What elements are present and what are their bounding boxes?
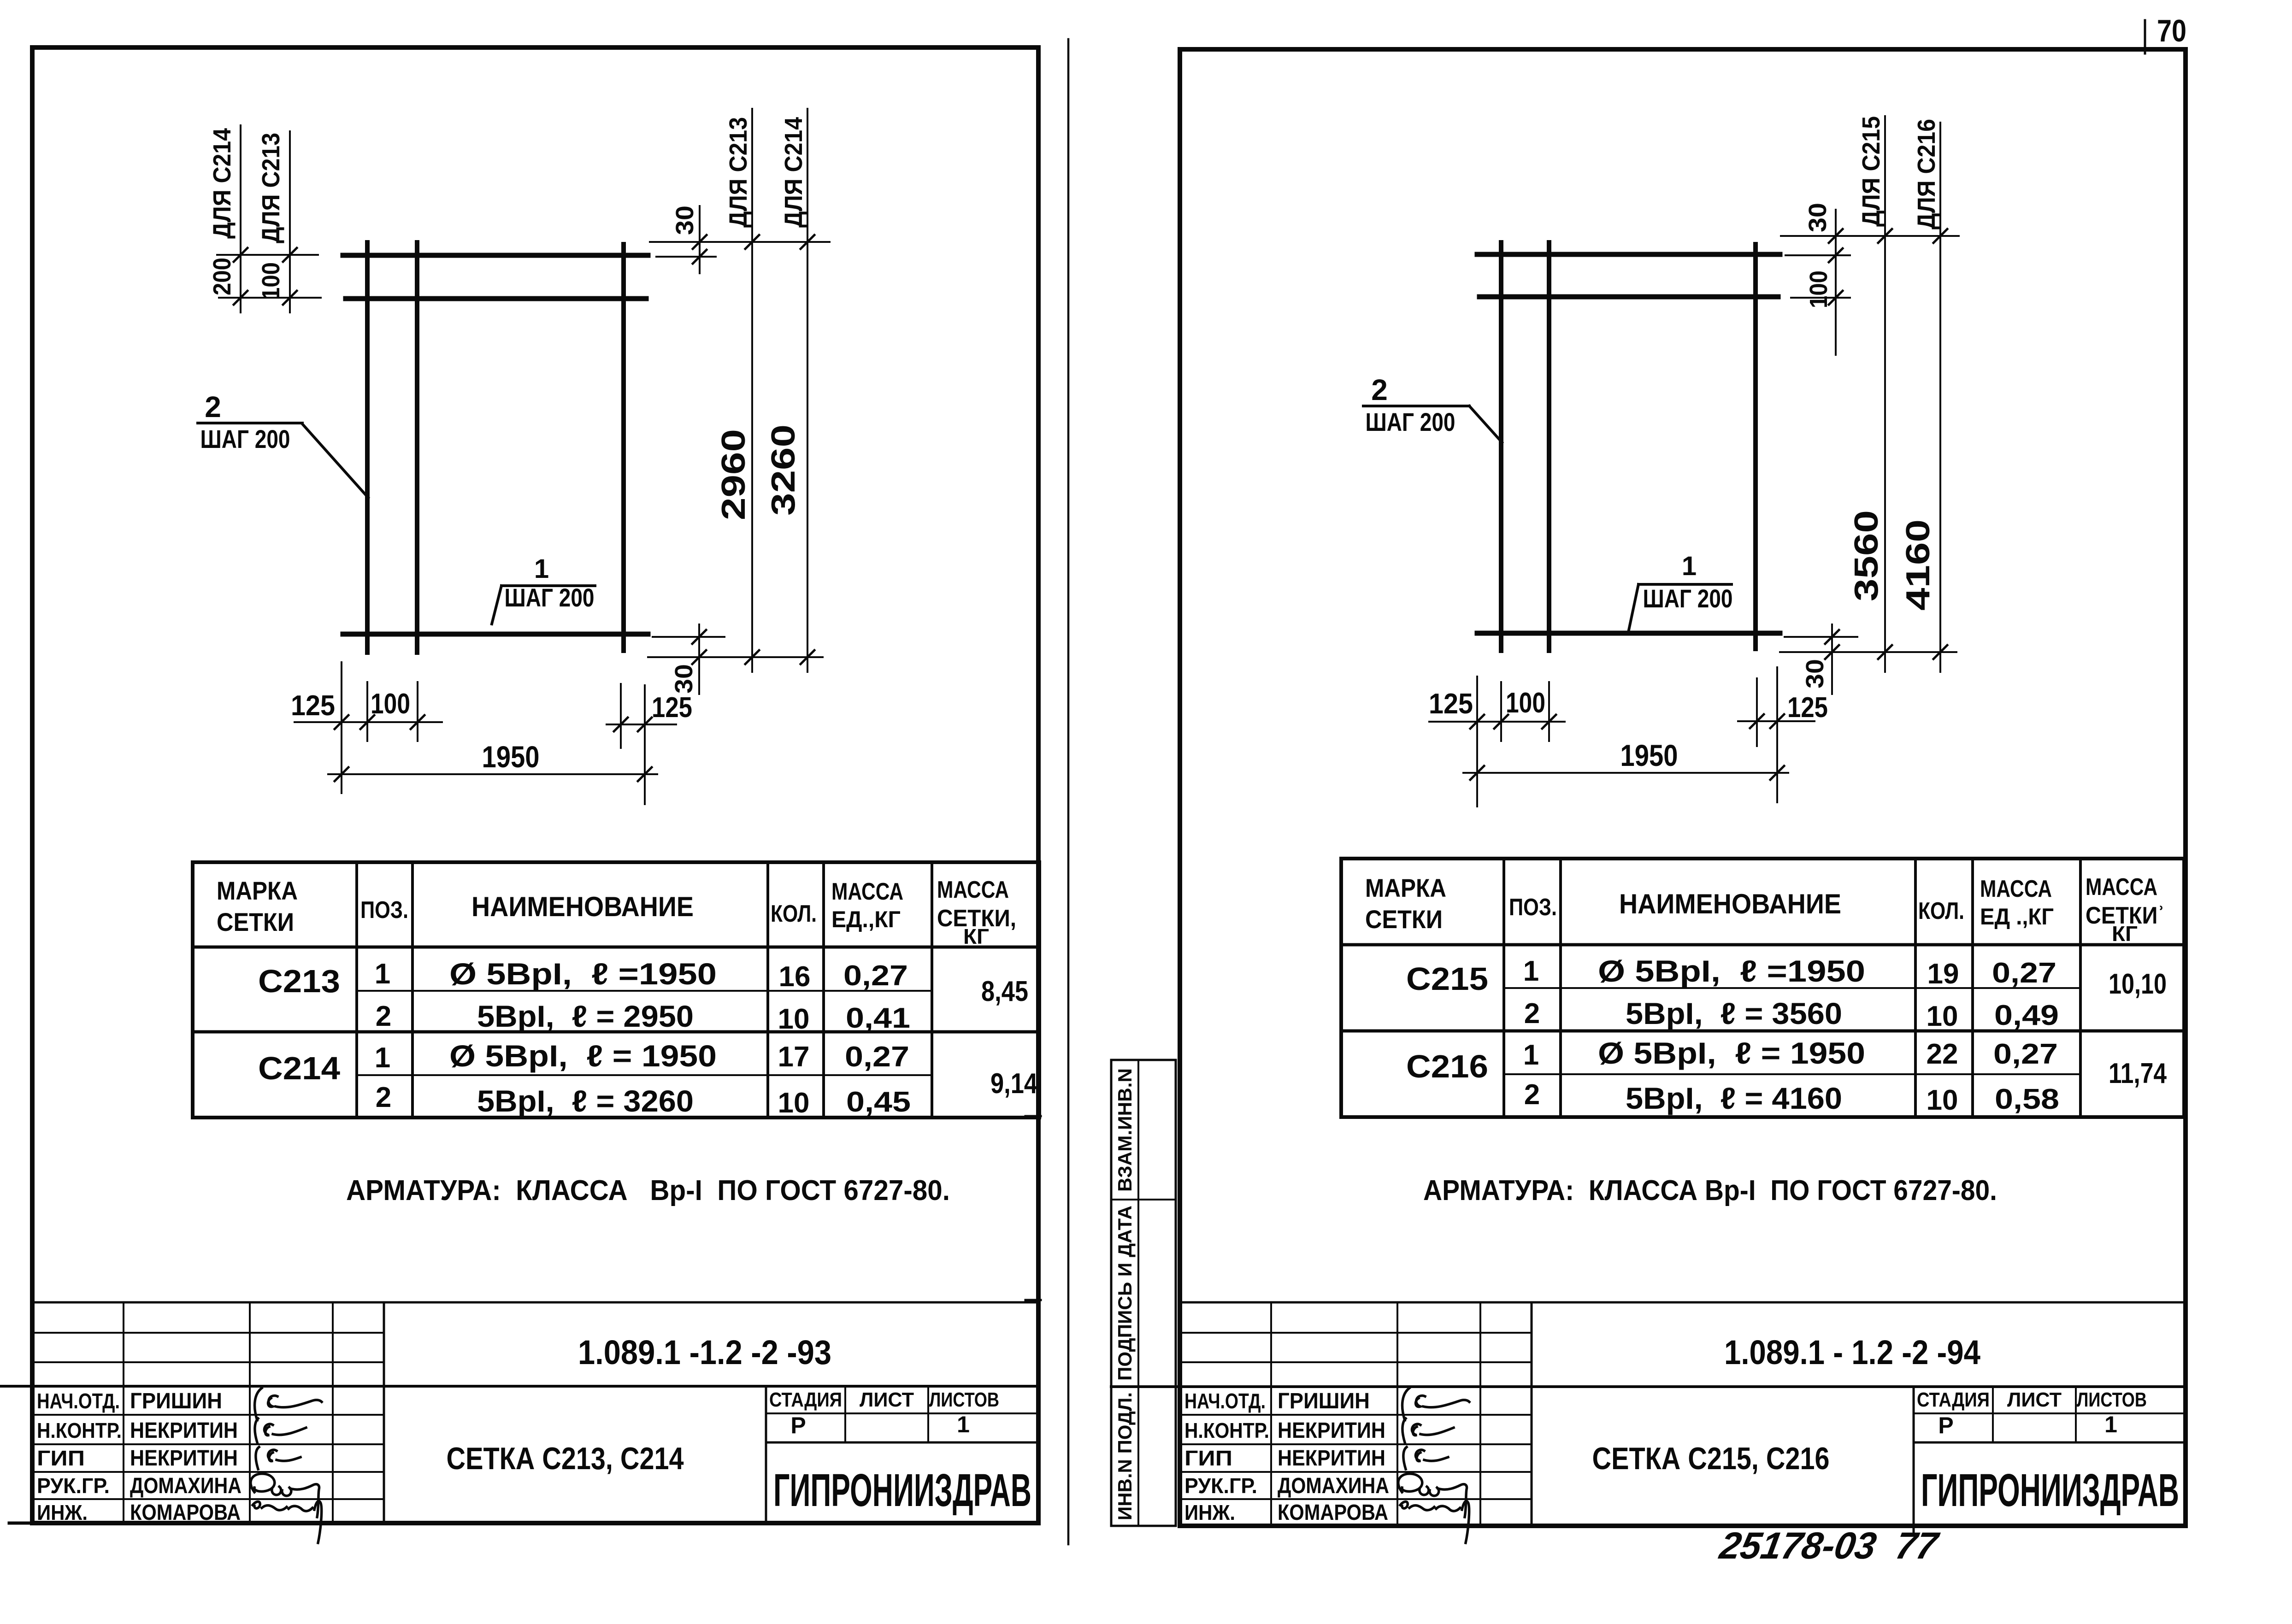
mesh 2 horizontal bar 3 (bottom) [1477, 631, 1780, 636]
title block 2 column x=3032 [1396, 1302, 1398, 1526]
table 2 column НАИМ/КОЛ [1914, 859, 1917, 1117]
svg-text:ЕД .,КГ: ЕД .,КГ [1980, 904, 2054, 930]
title block 1 column x=268 [123, 1302, 124, 1523]
title block 1 row line [32, 1361, 384, 1363]
table 2 thin row line C215 [1504, 987, 2080, 989]
dim extension line y=1382 (sheet2 bottom-right) [1785, 636, 1857, 638]
svg-text:С214: С214 [258, 1050, 340, 1086]
svg-text:1: 1 [1523, 1039, 1539, 1071]
svg-text:ШАГ 200: ШАГ 200 [1643, 584, 1733, 613]
table 2 column ПОЗ/НАИМ [1559, 859, 1562, 1117]
tick marks bottom-right group [692, 630, 814, 664]
svg-text:1: 1 [957, 1412, 970, 1437]
svg-text:ЛИСТОВ: ЛИСТОВ [929, 1389, 999, 1411]
dim line y=646 (top-left) [219, 297, 321, 299]
svg-text:2: 2 [205, 390, 221, 424]
svg-text:КГ: КГ [2112, 922, 2138, 946]
tick marks top-right group [693, 235, 814, 264]
svg-text:0,27: 0,27 [845, 1041, 909, 1073]
svg-text:1: 1 [534, 554, 549, 584]
svg-text:10: 10 [1927, 1084, 1958, 1116]
svg-text:НАЧ.ОТД.: НАЧ.ОТД. [37, 1389, 120, 1413]
svg-text:16: 16 [779, 961, 811, 993]
table 2 outer frame [1341, 859, 2184, 1117]
tick marks top-left group [234, 248, 297, 305]
signature НЕКРИТИН 2 sheet2 [1403, 1447, 1448, 1469]
svg-text:ГИП: ГИП [1184, 1446, 1232, 1470]
svg-text:125: 125 [652, 692, 692, 724]
table 1 column ПОЗ/НАИМ [411, 862, 414, 1118]
svg-text:МАССА: МАССА [831, 878, 903, 905]
leader 1 / ШАГ 200 (shelf) [501, 584, 595, 587]
signature НЕКРИТИН 2 [256, 1447, 300, 1469]
svg-text:Р: Р [790, 1412, 806, 1438]
table 2 column МАРКА/ПОЗ [1502, 859, 1505, 1117]
svg-text:ГИПРОНИИЗДРАВ: ГИПРОНИИЗДРАВ [1921, 1465, 2179, 1516]
svg-text:10: 10 [778, 1003, 810, 1035]
svg-text:0,58: 0,58 [1995, 1083, 2059, 1115]
leader 1 slant line [492, 586, 501, 624]
svg-text:РУК.ГР.: РУК.ГР. [37, 1474, 110, 1498]
svg-text:30: 30 [671, 206, 699, 235]
table 2 thin row line C216 [1504, 1073, 2080, 1075]
title block 2 ЛИСТ/ЛИСТОВ divider [2075, 1387, 2077, 1442]
dim line 4160 x=4210 [1939, 123, 1941, 672]
svg-text:10: 10 [778, 1087, 810, 1119]
title block 1 column x=542 [249, 1302, 251, 1523]
svg-text:КГ: КГ [963, 924, 989, 948]
dim extension vertical x=3856 [1776, 667, 1778, 802]
svg-text:СТАДИЯ: СТАДИЯ [1917, 1389, 1990, 1411]
dim extension line y=1382 (bottom-right) [653, 636, 725, 638]
svg-text:Ø 5ВрI, ℓ =1950: Ø 5ВрI, ℓ =1950 [1598, 954, 1865, 988]
svg-text:17: 17 [778, 1041, 810, 1073]
svg-text:25178-03 77: 25178-03 77 [1716, 1524, 1943, 1567]
svg-text:СТАДИЯ: СТАДИЯ [769, 1389, 842, 1411]
tick marks sheet2 right 125 group [1750, 714, 1784, 728]
svg-text:Н.КОНТР.: Н.КОНТР. [1184, 1418, 1269, 1442]
svg-text:125: 125 [1429, 688, 1473, 720]
dim line y=1680 (1950) [328, 773, 657, 775]
dim extension vertical x=741 (bottom-left) [341, 662, 342, 793]
svg-text:МАРКА: МАРКА [217, 876, 298, 905]
title block 1 ЛИСТ/ЛИСТОВ divider [927, 1386, 929, 1442]
mesh 2 horizontal bar 1 [1477, 252, 1780, 257]
signature НЕКРИТИН 1 sheet2 [1402, 1418, 1454, 1442]
mesh 1 horizontal bar 3 (bottom) [343, 632, 648, 637]
svg-text:Ø 5ВрI, ℓ =1950: Ø 5ВрI, ℓ =1950 [449, 957, 717, 991]
svg-text:ИНЖ.: ИНЖ. [37, 1500, 88, 1524]
svg-text:ГИП: ГИП [37, 1446, 85, 1470]
svg-text:ДОМАХИНА: ДОМАХИНА [1278, 1474, 1389, 1498]
svg-text:11,74: 11,74 [2109, 1058, 2167, 1089]
svg-text:ГРИШИН: ГРИШИН [130, 1389, 222, 1413]
svg-text:30: 30 [670, 664, 698, 694]
svg-text:ПОЗ.: ПОЗ. [360, 897, 408, 924]
svg-text:МАССА: МАССА [2086, 874, 2157, 900]
svg-text:ДЛЯ С215: ДЛЯ С215 [1857, 116, 1885, 227]
sheet 1 border frame [32, 47, 1038, 1523]
svg-text:1.089.1 -1.2 -2 -93: 1.089.1 -1.2 -2 -93 [578, 1333, 831, 1371]
svg-text:ПОЗ.: ПОЗ. [1509, 894, 1557, 921]
svg-text:С215: С215 [1406, 961, 1488, 997]
svg-text:ДОМАХИНА: ДОМАХИНА [130, 1474, 242, 1498]
table 1 mid line (C213/C214) [193, 1030, 1039, 1034]
table 1 outer frame [193, 862, 1039, 1118]
table 1 column НАИМ/КОЛ [766, 862, 769, 1118]
mesh 2 vertical bar C [1753, 244, 1758, 649]
dim line 2960 x=1632 [751, 109, 753, 672]
stamp section divider 1 [1111, 1199, 1176, 1200]
dim extension vertical x=1347 (bottom-right 125) [620, 684, 622, 748]
dim vertical x=1517 (bottom-right, 30) [698, 624, 700, 694]
svg-text:ДЛЯ С213: ДЛЯ С213 [257, 133, 285, 243]
svg-text:100: 100 [371, 688, 410, 720]
svg-text:1: 1 [1523, 955, 1539, 987]
svg-text:ДЛЯ С213: ДЛЯ С213 [725, 117, 752, 228]
svg-text:1: 1 [375, 958, 390, 990]
table 1 column МАССА/МАССА СЕТКИ [931, 862, 933, 1118]
leader 2 sheet2 slant [1469, 406, 1502, 442]
svg-text:9,14: 9,14 [990, 1068, 1037, 1100]
leader 2 sheet2 (shelf) [1363, 405, 1469, 407]
svg-text:С213: С213 [258, 963, 340, 999]
svg-text:100: 100 [257, 262, 285, 300]
svg-text:АРМАТУРА: КЛАССА Вр-I ПО Г: АРМАТУРА: КЛАССА Вр-I ПО ГОСТ 6727-80. [346, 1175, 950, 1206]
svg-text:100: 100 [1805, 271, 1832, 308]
svg-text:РУК.ГР.: РУК.ГР. [1184, 1474, 1257, 1498]
svg-text:ГРИШИН: ГРИШИН [1278, 1389, 1370, 1413]
dim extension vertical x=3257 [1500, 682, 1502, 741]
svg-text:2: 2 [376, 1000, 391, 1032]
title block 2 column x=3323 [1531, 1302, 1533, 1526]
svg-text:НЕКРИТИН: НЕКРИТИН [1278, 1418, 1385, 1443]
dim extension line x=522 (top-left, for 200) [240, 125, 242, 312]
mesh 1 horizontal bar 1 [343, 253, 648, 258]
title block 2 top line [1180, 1301, 2186, 1304]
svg-text:2960: 2960 [715, 429, 752, 520]
tick marks sheet2 top-right [1829, 229, 1947, 305]
svg-text:125: 125 [291, 690, 335, 722]
svg-text:0,27: 0,27 [1992, 957, 2056, 989]
svg-text:22: 22 [1927, 1038, 1958, 1070]
svg-text:5ВрI, ℓ = 3560: 5ВрI, ℓ = 3560 [1626, 996, 1842, 1030]
title block 1 СТАДИЯ/ЛИСТ divider [844, 1386, 846, 1442]
svg-text:2: 2 [1524, 998, 1540, 1030]
table 1 column МАРКА/ПОЗ [355, 862, 358, 1118]
svg-text:0,45: 0,45 [846, 1086, 911, 1118]
svg-text:КОМАРОВА: КОМАРОВА [1278, 1500, 1388, 1525]
table 1 column КОЛ/МАССА [822, 862, 825, 1118]
leader 2 slant line [302, 424, 368, 498]
sheets divider line [1067, 39, 1070, 1544]
svg-text:1: 1 [375, 1042, 390, 1074]
title block 1 СТАДИЯ header bottom [766, 1412, 1039, 1414]
svg-text:30: 30 [1804, 203, 1832, 232]
tick marks bottom-left group [335, 715, 652, 781]
svg-text:70: 70 [2157, 13, 2186, 48]
svg-text:КОЛ.: КОЛ. [1918, 898, 1964, 924]
dim extension line y=525 (top-right) [650, 241, 830, 243]
mesh 2 vertical bar B [1547, 242, 1551, 651]
svg-text:Н.КОНТР.: Н.КОНТР. [37, 1418, 122, 1442]
svg-text:4160: 4160 [1900, 519, 1937, 611]
dim extension vertical x=797 [366, 682, 368, 741]
signature КОМАРОВА sheet2 [1400, 1501, 1469, 1543]
fold tick marks near divider [1025, 1115, 1041, 1118]
title block 2 column x=3212 [1479, 1302, 1481, 1526]
svg-text:0,27: 0,27 [843, 960, 908, 992]
title block 2 row line [1180, 1361, 1532, 1363]
signature НЕКРИТИН 1 [255, 1418, 306, 1442]
svg-text:3560: 3560 [1848, 510, 1885, 601]
leader 2 / ШАГ 200 (shelf) [198, 422, 302, 424]
svg-text:Р: Р [1938, 1412, 1953, 1438]
title block 1 column x=1662 (СТАДИЯ left) [765, 1386, 767, 1523]
svg-text:2: 2 [1524, 1079, 1540, 1111]
title block 1 top line [32, 1301, 1039, 1304]
svg-text:СЕТКА С213, С214: СЕТКА С213, С214 [447, 1441, 684, 1476]
dim vertical x=3975 (30) [1831, 624, 1833, 694]
svg-text:МАССА: МАССА [937, 877, 1009, 903]
mesh 1 vertical bar C [621, 244, 626, 651]
svg-text:СЕТКА С215, С216: СЕТКА С215, С216 [1592, 1441, 1830, 1476]
svg-text:ЛИСТ: ЛИСТ [2007, 1389, 2062, 1411]
signature ДОМАХИНА [251, 1474, 319, 1517]
tick marks sheet2 bottom-left [1470, 715, 1784, 780]
table 1 header bottom line [193, 946, 1039, 949]
title block 1 ГИПРОНИИЗДРАВ box top [766, 1442, 1039, 1444]
title block 2 СТАДИЯ/ЛИСТ divider [1992, 1387, 1994, 1442]
dim extension vertical x=906 [417, 682, 418, 741]
signature ГРИШИН [255, 1388, 322, 1420]
svg-text:100: 100 [1506, 687, 1545, 719]
dim line y=1566 (125/100) [1429, 721, 1565, 723]
svg-text:30: 30 [1801, 659, 1829, 688]
svg-text:Ø 5ВрI, ℓ = 1950: Ø 5ВрI, ℓ = 1950 [449, 1039, 717, 1073]
title block 2 ГИПРОНИИЗДРАВ box top [1914, 1442, 2186, 1444]
svg-text:ПОДПИСЬ И ДАТА: ПОДПИСЬ И ДАТА [1114, 1206, 1136, 1381]
svg-text:1: 1 [2104, 1412, 2117, 1437]
dim extension vertical x=1399 [644, 685, 646, 804]
dim extension line y=557 (top-right) [656, 256, 716, 258]
svg-text:ВЗАМ.ИНВ.N: ВЗАМ.ИНВ.N [1114, 1068, 1136, 1192]
svg-text:ШАГ 200: ШАГ 200 [505, 583, 595, 612]
leader 1 sheet2 slant [1628, 584, 1638, 632]
table 2 column КОЛ/МАССА [1971, 859, 1974, 1117]
mesh 2 horizontal bar 2 [1479, 294, 1778, 300]
dim extension line y=512 (sheet2 top-right) [1781, 235, 1959, 237]
leader 1 sheet2 (shelf) [1638, 583, 1732, 586]
svg-text:10: 10 [1927, 1000, 1958, 1032]
table 1 thin row line C214 [357, 1074, 932, 1076]
svg-text:АРМАТУРА: КЛАССА Вр-I ПО ГОС: АРМАТУРА: КЛАССА Вр-I ПО ГОСТ 6727-80. [1423, 1175, 1997, 1206]
dim line y=1572 (right 125) [607, 724, 676, 725]
mesh 1 horizontal bar 2 [346, 296, 646, 301]
svg-text:ШАГ 200: ШАГ 200 [200, 424, 290, 453]
dim line y=1677 (1950) [1463, 772, 1788, 774]
svg-text:125: 125 [1787, 692, 1828, 724]
svg-text:5ВрI, ℓ = 3260: 5ВрI, ℓ = 3260 [477, 1084, 694, 1118]
svg-text:5ВрI, ℓ = 2950: 5ВрI, ℓ = 2950 [477, 999, 694, 1033]
svg-text:1.089.1 - 1.2 -2 -94: 1.089.1 - 1.2 -2 -94 [1724, 1333, 1980, 1371]
svg-text:СЕТКИ: СЕТКИ [217, 907, 294, 936]
dim extension line y=1426 (bottom-right) [648, 656, 823, 658]
dim extension line y=1426 [1780, 651, 1956, 653]
svg-text:С216: С216 [1406, 1048, 1488, 1084]
svg-text:0,49: 0,49 [1994, 1000, 2059, 1031]
svg-text:ДЛЯ С214: ДЛЯ С214 [208, 128, 236, 239]
svg-text:ИНВ.N ПОДЛ.: ИНВ.N ПОДЛ. [1114, 1392, 1136, 1520]
svg-text:1: 1 [1682, 551, 1697, 581]
svg-text:ДЛЯ С214: ДЛЯ С214 [780, 117, 807, 228]
dim line 3260 x=1752 [807, 109, 808, 672]
svg-text:8,45: 8,45 [981, 976, 1028, 1007]
dim extension line y=554 [1785, 254, 1850, 256]
svg-text:ЛИСТОВ: ЛИСТОВ [2077, 1389, 2147, 1411]
title block 1 name row lines [32, 1414, 384, 1416]
table 1 thin row line C213 [357, 990, 932, 992]
svg-text:НАИМЕНОВАНИЕ: НАИМЕНОВАНИЕ [1619, 888, 1841, 919]
dim extension vertical x=3205 (sheet2 bottom-left) [1476, 677, 1478, 806]
stamp column divider [1137, 1060, 1139, 1526]
svg-text:ДЛЯ С216: ДЛЯ С216 [1913, 119, 1940, 229]
svg-text:МАССА: МАССА [1980, 876, 2052, 902]
svg-text:200: 200 [208, 258, 236, 295]
mesh 1 vertical bar B [415, 242, 419, 653]
svg-text:0,27: 0,27 [1993, 1038, 2058, 1070]
tick marks sheet2 bottom-right [1825, 630, 1947, 659]
sheet 2 border frame [1180, 49, 2186, 1526]
dim line y=553 (top-left) [217, 254, 318, 256]
svg-text:19: 19 [1927, 958, 1959, 990]
dim extension vertical x=3361 [1548, 682, 1550, 741]
svg-text:ШАГ 200: ШАГ 200 [1366, 407, 1455, 436]
svg-text:Ø 5ВрI, ℓ = 1950: Ø 5ВрI, ℓ = 1950 [1598, 1036, 1865, 1070]
svg-text:10,10: 10,10 [2109, 968, 2167, 1000]
dim extension line y=646 [1791, 297, 1850, 299]
svg-text:ГИПРОНИИЗДРАВ: ГИПРОНИИЗДРАВ [773, 1465, 1031, 1516]
dim extension line x=629 (top-left, for 100) [289, 131, 291, 312]
title block 2 name row lines [1180, 1414, 1532, 1416]
svg-text:ИНЖ.: ИНЖ. [1184, 1500, 1235, 1524]
svg-text:МАРКА: МАРКА [1365, 873, 1446, 902]
title block 2 row line [1180, 1332, 1532, 1334]
svg-text:НЕКРИТИН: НЕКРИТИН [1278, 1446, 1385, 1471]
dim line y=1567 (125/100) [295, 721, 442, 723]
signature ГРИШИН sheet2 [1402, 1388, 1469, 1420]
title block 2 СТАДИЯ header bottom [1914, 1412, 2186, 1414]
mesh 1 vertical bar A [365, 242, 370, 653]
title block 2 column x=2758 [1270, 1302, 1272, 1526]
title block 1 column x=833 [383, 1302, 385, 1523]
svg-text:ЛИСТ: ЛИСТ [860, 1389, 914, 1411]
svg-text:КОМАРОВА: КОМАРОВА [130, 1500, 241, 1525]
svg-text:1950: 1950 [1620, 738, 1678, 772]
svg-text:НЕКРИТИН: НЕКРИТИН [130, 1418, 238, 1443]
svg-text:СЕТКИ: СЕТКИ [1365, 905, 1443, 934]
title block 2 middle line [1111, 1385, 2186, 1388]
table 2 mid line (C215/C216) [1341, 1030, 2184, 1033]
title block 1 middle line (with left tick) [0, 1385, 1039, 1388]
svg-text:КОЛ.: КОЛ. [771, 900, 817, 927]
dim vertical x=3983 (30/100) [1835, 210, 1837, 355]
bottom border left tick sheet1 [9, 1522, 32, 1525]
svg-text:НЕКРИТИН: НЕКРИТИН [130, 1446, 238, 1471]
table 2 column МАССА/МАССА СЕТКИ [2079, 859, 2082, 1117]
svg-text:1950: 1950 [482, 740, 540, 774]
title block 1 row line [32, 1332, 384, 1334]
svg-text:2: 2 [1371, 373, 1388, 406]
dim vertical x=1518 (top-right, 30) [699, 206, 701, 273]
svg-text:0,41: 0,41 [846, 1002, 910, 1034]
svg-text:НАИМЕНОВАНИЕ: НАИМЕНОВАНИЕ [471, 891, 694, 922]
title block 2 column x=4152 (СТАДИЯ left) [1913, 1387, 1915, 1535]
signature ДОМАХИНА sheet2 [1398, 1474, 1467, 1517]
svg-text:5ВрI, ℓ = 4160: 5ВрI, ℓ = 4160 [1626, 1081, 1842, 1115]
mesh 2 vertical bar A [1499, 242, 1503, 651]
svg-text:3260: 3260 [765, 424, 802, 516]
signature КОМАРОВА [253, 1501, 322, 1543]
dim extension vertical x=3812 (sheet2 bottom-right 125) [1756, 678, 1758, 746]
dim line 3560 x=4090 [1884, 116, 1886, 672]
dim line y=1565 (sheet2 right 125) [1738, 720, 1815, 722]
tick marks right 125 group [614, 718, 652, 731]
svg-text:2: 2 [376, 1082, 391, 1113]
svg-text:ЕД.,КГ: ЕД.,КГ [831, 906, 901, 932]
table 2 header bottom line [1341, 943, 2184, 947]
svg-text:НАЧ.ОТД.: НАЧ.ОТД. [1184, 1389, 1266, 1413]
page number 70 tick [2144, 20, 2146, 53]
inventory stamp boxes sheet 2 [1111, 1060, 1176, 1526]
title block 1 column x=722 [332, 1302, 334, 1523]
